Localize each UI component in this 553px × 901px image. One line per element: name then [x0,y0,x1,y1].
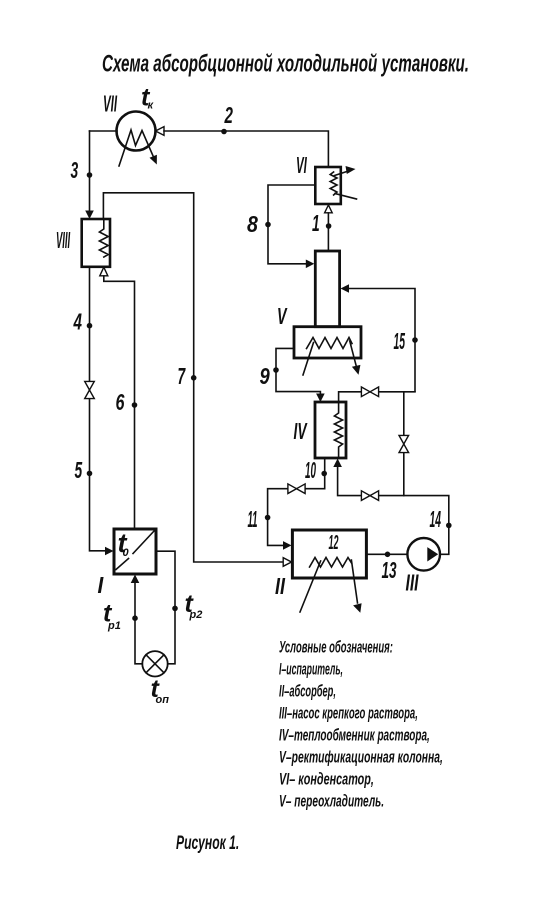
svg-text:10: 10 [305,457,316,483]
svg-text:III–насос крепкого раствора,: III–насос крепкого раствора, [279,704,418,723]
arrow up into I bottom [131,575,140,584]
node 11 dot [265,515,271,521]
condenser VII circle [117,112,156,151]
node 7 dot [191,375,197,381]
svg-text:4: 4 [73,309,82,335]
II zigzag [310,558,352,568]
IV coil [334,402,342,458]
arrow into II left (strong) [283,541,292,550]
VII open arrow right [156,127,165,136]
wire VI to column, node 1 [327,213,329,251]
svg-text:V– переохладитель.: V– переохладитель. [279,791,384,810]
svg-text:Схема абсорбционной холодильно: Схема абсорбционной холодильной установк… [102,51,469,77]
VIII bottom open triangle [100,267,108,276]
open arrow into II left [283,558,291,567]
node 10 dot [321,471,327,477]
svg-text:3: 3 [71,159,79,184]
svg-text:V–ректификационная колонна,: V–ректификационная колонна, [279,747,443,766]
arrow up into IV bottom [333,459,342,468]
VI coil [330,172,337,195]
node 9 dot [273,367,279,373]
svg-text:VIII: VIII [56,227,71,253]
heat exchanger IV [315,402,346,458]
svg-text:VI: VI [296,153,307,178]
VI inlet line bottom right [335,194,357,200]
node 6 dot [132,402,138,408]
svg-text:p1: p1 [107,620,121,632]
wire I right to fan right (tp2 leg) [156,551,175,664]
wire left vertical node3 down to VIII [89,131,91,211]
svg-text:9: 9 [260,364,271,389]
node tp2 dot [172,606,178,612]
wire II to pump, node 13 [366,553,407,555]
evaporator I [114,529,156,574]
legend [279,638,443,810]
vapor wire node7: VIII coil top to II left [103,193,283,562]
valve V2 [288,484,305,494]
wire node10/11: IV bottom to absorber II [268,458,325,545]
node tp1 dot [132,615,138,621]
wire node9: V drum left to IV top [276,348,320,393]
arrow into column left [306,260,315,269]
V drum right diagonal with arrow [350,341,357,367]
svg-text:13: 13 [382,559,397,585]
arrow into VIII top [85,211,94,220]
svg-text:12: 12 [329,532,339,554]
svg-text:I–испаритель,: I–испаритель, [279,659,343,678]
node 2 dot [221,129,227,135]
absorber II [292,530,366,578]
II right diagonal with arrow [351,560,357,603]
svg-text:Условные обозначения:: Условные обозначения: [279,638,393,657]
node 14 dot [446,523,452,529]
valve V4 vertical [85,381,95,398]
arrow into I left [105,547,114,556]
wire top horizontal node2 [164,131,328,167]
wire fan left up to I bottom (tp1 leg) [135,583,142,664]
svg-text:оп: оп [156,694,170,706]
node 1 dot [326,223,332,229]
svg-text:IV: IV [294,420,308,445]
svg-text:II–абсорбер,: II–абсорбер, [279,682,336,701]
V lower drum [294,327,361,358]
wire: IV coil top to right line [339,392,415,402]
node 8 dot [265,222,271,228]
arrow into IV top [316,394,325,403]
wire node15: column right from bypass [349,289,416,392]
svg-text:8: 8 [247,212,258,238]
VII M zigzag with legs [119,130,154,166]
node 5 dot [87,471,93,477]
wire node8: VI left to column left [268,185,315,264]
svg-text:VI– конденсатор,: VI– конденсатор, [279,770,374,789]
node 3 dot [87,172,93,178]
svg-text:V: V [277,305,288,330]
VIII coil [99,219,108,257]
V drum left diagonal [303,343,314,376]
svg-text:15: 15 [394,328,406,354]
node 4 dot [87,323,93,329]
svg-text:0: 0 [123,547,130,559]
wire: IV bottom coil to pump line [338,468,449,555]
svg-text:5: 5 [75,459,83,484]
pump III [407,538,440,571]
VI outlet arrow top right [335,171,351,176]
node 15 dot [412,337,418,343]
rectification column V upper [315,251,339,327]
V drum zigzag [307,338,353,349]
svg-text:7: 7 [178,365,187,390]
valve V5 vertical [399,435,409,452]
svg-text:14: 14 [430,506,442,532]
valve V3 [361,491,378,501]
VI bottom open triangle [325,205,333,213]
svg-text:II: II [275,574,286,600]
svg-text:VII: VII [103,91,118,116]
node 13 dot [385,552,391,558]
VII M arrow head [150,155,157,165]
svg-text:I: I [98,572,105,598]
svg-text:2: 2 [224,103,233,129]
II left diagonal [300,561,321,612]
svg-text:6: 6 [116,390,126,415]
svg-text:p2: p2 [189,609,203,621]
fan circle [142,651,167,676]
wire node6: VIII coil bottom to evaporator I top [104,276,135,528]
condenser VI [315,167,341,204]
svg-text:Рисунок 1.: Рисунок 1. [176,834,239,854]
valve V1 [361,387,378,397]
bypass wire with vertical valve [403,392,405,496]
svg-text:III: III [406,571,419,597]
wire top-left horizontal to condenser VII [90,130,118,132]
arrow into column right [341,284,350,293]
svg-text:11: 11 [248,506,258,532]
liquid wire node4/5 with valve V4 [90,267,106,551]
I diagonals [116,531,155,570]
svg-text:1: 1 [312,212,320,237]
svg-text:IV–теплообменник раствора,: IV–теплообменник раствора, [279,725,430,745]
subcooler VIII [82,219,110,267]
